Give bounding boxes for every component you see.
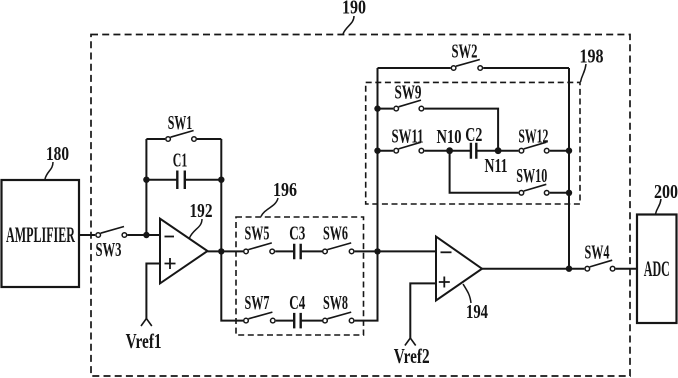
svg-text:C4: C4: [289, 292, 305, 314]
svg-text:192: 192: [190, 200, 213, 222]
switch SW6: [323, 249, 328, 254]
label 198: [580, 46, 604, 68]
node right SW12: [566, 148, 572, 154]
svg-text:SW10: SW10: [516, 165, 547, 187]
label 180: [46, 143, 69, 165]
svg-text:198: 198: [580, 46, 604, 68]
ADC box 200: [637, 215, 677, 324]
svg-text:AMPLIFIER: AMPLIFIER: [6, 222, 76, 247]
node output 192: [218, 248, 224, 254]
node output junction: [566, 266, 572, 272]
wire C4 to SW8: [301, 320, 322, 322]
switch SW5: [244, 249, 249, 254]
node SW9 tap: [374, 105, 380, 111]
label 190: [342, 0, 366, 19]
label 196: [273, 179, 297, 201]
switch SW7: [244, 318, 249, 323]
svg-text:SW7: SW7: [245, 292, 270, 314]
wire plus input 194 to Vref2: [410, 283, 436, 338]
wire left vertical to SW2: [377, 68, 379, 251]
leader 180: [45, 162, 53, 179]
node N10: [446, 147, 453, 154]
leader 196: [261, 198, 278, 217]
svg-text:SW1: SW1: [168, 112, 193, 134]
op-amp U194: [436, 237, 482, 301]
dashed box 196: [236, 217, 364, 335]
leader 200: [656, 199, 662, 214]
label 200: [654, 181, 678, 203]
wire SW2 row: [378, 67, 570, 69]
dashed box 198: [366, 82, 580, 204]
wire SW11 row: [378, 150, 450, 152]
node SW11 tap: [374, 148, 380, 154]
node row1 junction: [374, 248, 380, 254]
svg-text:ADC: ADC: [644, 256, 670, 281]
wire feedback right vertical: [220, 139, 222, 251]
amplifier box 180: [2, 180, 80, 287]
svg-text:N11: N11: [485, 155, 508, 177]
svg-text:Vref2: Vref2: [394, 344, 430, 368]
wire C1 row: [146, 179, 221, 181]
wire SW3 to opamp: [127, 234, 160, 236]
svg-text:180: 180: [46, 143, 69, 165]
wire opamp194 output: [482, 268, 584, 270]
switch SW3: [96, 233, 101, 238]
label 194: [466, 301, 488, 323]
wire feedback left vertical: [145, 139, 147, 235]
svg-text:SW2: SW2: [452, 41, 478, 63]
leader 194: [463, 284, 471, 303]
capacitor C2: [471, 143, 476, 159]
leader 198: [581, 64, 587, 82]
wire SW12 to right vertical: [550, 150, 569, 152]
svg-text:196: 196: [273, 179, 297, 201]
svg-text:200: 200: [654, 181, 678, 203]
wire plus input 192 to Vref1: [146, 264, 160, 320]
Vref1 terminal chevron: [141, 319, 152, 327]
wire SW5 to C3: [275, 250, 294, 252]
svg-text:SW5: SW5: [245, 222, 270, 244]
svg-text:C1: C1: [173, 149, 188, 171]
switch SW11: [394, 148, 399, 153]
wire SW10 to right vertical: [550, 192, 569, 194]
switch SW4: [585, 266, 590, 271]
node C1 left: [143, 177, 149, 183]
svg-text:SW3: SW3: [96, 239, 122, 261]
wire SW7 to C4: [276, 320, 294, 322]
switch SW8: [323, 318, 328, 323]
leader 192: [190, 219, 203, 238]
wire SW9 row: [378, 109, 499, 151]
wire N10 to C2: [450, 150, 471, 152]
label 192: [190, 200, 213, 222]
wire right vertical: [568, 68, 570, 269]
node minus 192: [143, 232, 149, 238]
switch SW10: [519, 191, 524, 196]
svg-text:SW11: SW11: [392, 125, 424, 147]
wire lower branch left: [221, 251, 243, 320]
Vref2 terminal chevron: [405, 338, 416, 346]
dashed outer box 190: [91, 35, 630, 377]
svg-text:SW4: SW4: [585, 242, 610, 264]
wire SW1 row: [146, 138, 221, 140]
capacitor C3: [294, 244, 301, 260]
wire lower branch right: [355, 251, 378, 320]
svg-text:SW9: SW9: [395, 82, 422, 104]
svg-text:194: 194: [466, 301, 488, 323]
svg-text:SW6: SW6: [323, 222, 348, 244]
switch SW12: [519, 148, 524, 153]
svg-text:C2: C2: [465, 124, 482, 146]
node C1 right: [218, 177, 224, 183]
svg-text:C3: C3: [289, 222, 305, 244]
svg-text:N10: N10: [437, 126, 462, 148]
svg-text:190: 190: [342, 0, 366, 19]
switch SW1: [166, 137, 171, 142]
node right SW10: [566, 190, 572, 196]
wire SW4 to ADC: [616, 268, 637, 270]
wire N10 down to SW10 row: [450, 151, 519, 193]
capacitor C1: [177, 171, 185, 190]
leader 190: [343, 16, 354, 34]
wire C2 to N11: [476, 150, 518, 152]
wire amplifier to SW3: [79, 234, 95, 236]
wire opamp output to SW5: [208, 250, 244, 252]
switch SW9: [394, 106, 399, 111]
wire C3 to SW6: [301, 250, 322, 252]
svg-text:SW12: SW12: [518, 125, 548, 147]
svg-text:Vref1: Vref1: [126, 329, 162, 353]
op-amp U192: [160, 219, 208, 284]
capacitor C4: [294, 313, 301, 329]
wire SW6 to node: [355, 250, 436, 252]
node N11: [495, 147, 502, 154]
switch SW2: [451, 66, 456, 71]
svg-text:SW8: SW8: [323, 292, 348, 314]
